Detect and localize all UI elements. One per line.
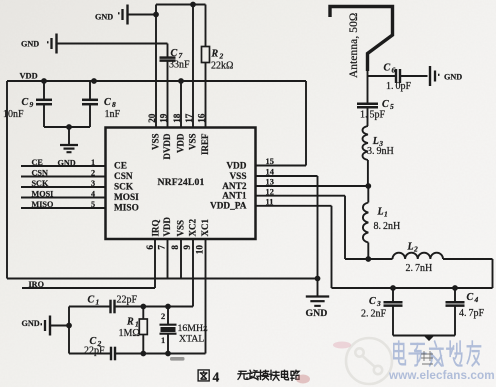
svg-text:18: 18 [172,113,182,123]
svg-text:16: 16 [196,113,206,123]
svg-text:SCK: SCK [114,183,134,193]
svg-text:MOSI: MOSI [32,189,54,198]
svg-text:L: L [377,207,384,218]
svg-text:GND: GND [21,40,39,49]
svg-text:XC2: XC2 [188,219,198,237]
svg-text:12: 12 [266,187,274,196]
svg-text:2: 2 [91,168,95,177]
svg-text:19: 19 [158,113,168,123]
svg-text:GND: GND [95,12,113,21]
svg-text:VSS: VSS [229,172,246,182]
svg-text:22pF: 22pF [84,345,105,356]
svg-text:C: C [384,63,391,74]
svg-text:ANT2: ANT2 [222,182,247,192]
svg-text:CSN: CSN [114,172,133,182]
svg-text:VDD: VDD [226,161,246,171]
svg-text:17: 17 [184,113,194,123]
svg-text:GND: GND [22,319,40,328]
svg-text:VSS: VSS [151,134,161,151]
svg-text:8: 8 [112,100,116,109]
svg-text:22pF: 22pF [117,294,138,305]
svg-text:3: 3 [376,299,381,308]
svg-text:VSS: VSS [176,220,186,237]
svg-text:22kΩ: 22kΩ [211,61,233,72]
svg-text:DVDD: DVDD [162,133,172,159]
svg-text:ANT1: ANT1 [222,192,247,202]
svg-text:20: 20 [147,113,157,123]
svg-text:1: 1 [384,210,388,219]
svg-text:15: 15 [266,157,274,166]
svg-text:C: C [88,294,95,305]
svg-text:16MHz: 16MHz [178,323,209,334]
svg-text:IREF: IREF [200,133,210,155]
svg-text:2: 2 [413,245,418,254]
svg-text:1: 1 [161,336,165,345]
svg-text:VDD: VDD [162,217,172,237]
svg-text:MOSI: MOSI [114,193,139,203]
svg-text:8: 8 [170,245,180,250]
svg-text:C: C [171,48,178,59]
svg-text:7: 7 [157,245,167,250]
svg-text:3. 9nH: 3. 9nH [367,146,394,157]
svg-text:SCK: SCK [32,179,49,188]
svg-text:VSS: VSS [188,134,198,151]
svg-text:CSN: CSN [32,168,48,177]
svg-text:33nF: 33nF [169,59,190,70]
svg-text:MISO: MISO [114,204,139,214]
svg-text:14: 14 [266,168,275,177]
svg-text:C: C [467,292,474,303]
svg-text:GND: GND [444,72,462,81]
svg-text:CE: CE [32,158,44,167]
svg-text:1MΩ: 1MΩ [119,328,140,339]
svg-text:MISO: MISO [32,200,54,209]
svg-text:9: 9 [182,245,192,250]
svg-text:6: 6 [392,66,396,75]
svg-text:1: 1 [96,297,100,306]
svg-text:IRQ: IRQ [151,219,161,236]
svg-text:1nF: 1nF [105,109,121,120]
svg-text:L: L [407,242,414,253]
svg-text:GND: GND [306,308,328,319]
svg-text:NRF24L01: NRF24L01 [158,177,205,188]
svg-text:VDD_PA: VDD_PA [210,202,247,212]
svg-text:3: 3 [91,179,95,188]
svg-text:1: 1 [91,158,95,167]
svg-text:2: 2 [219,52,224,61]
svg-text:1. 0pF: 1. 0pF [386,81,412,92]
svg-text:5: 5 [91,200,95,209]
svg-text:5: 5 [390,102,394,111]
svg-text:4. 7pF: 4. 7pF [459,308,485,319]
svg-text:VDD: VDD [176,133,186,153]
svg-text:C: C [382,99,389,110]
svg-text:Antenna, 50Ω: Antenna, 50Ω [348,13,360,78]
svg-text:11: 11 [266,198,274,207]
svg-text:10nF: 10nF [3,109,24,120]
svg-text:1. 5pF: 1. 5pF [360,110,386,121]
svg-text:9: 9 [30,100,34,109]
svg-text:R: R [211,49,219,60]
svg-text:2: 2 [161,312,165,321]
svg-text:C: C [369,296,376,307]
svg-text:CE: CE [114,162,127,172]
svg-text:4: 4 [474,295,479,304]
svg-text:6: 6 [145,245,155,250]
svg-text:10: 10 [195,245,205,255]
svg-text:VDD: VDD [20,72,38,81]
svg-text:www.elecfans.com: www.elecfans.com [388,369,495,382]
svg-text:4: 4 [213,370,220,385]
svg-text:2. 2nF: 2. 2nF [361,309,387,320]
svg-text:C: C [104,97,111,108]
svg-text:2. 7nH: 2. 7nH [406,263,433,274]
svg-text:8. 2nH: 8. 2nH [374,221,401,232]
svg-text:4: 4 [91,189,95,198]
svg-text:XC1: XC1 [200,219,210,237]
svg-text:R: R [126,317,134,328]
svg-text:C: C [22,97,29,108]
svg-text:13: 13 [266,178,274,187]
svg-text:XTAL: XTAL [179,334,204,345]
